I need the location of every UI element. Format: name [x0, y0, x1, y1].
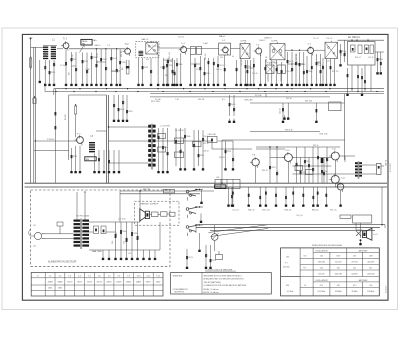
- more drops t3: [217, 56, 219, 82]
- more drops t4: [236, 60, 238, 82]
- wire bus left drop1: [53, 89, 55, 95]
- wire Tr10 base: [270, 157, 284, 159]
- wire Tr11-12 link: [334, 160, 336, 175]
- small box B1: [191, 47, 196, 55]
- svg-text:CA6.L2: CA6.L2: [141, 38, 149, 41]
- resistor R23 in box: [358, 45, 362, 54]
- svg-text:R1 220: R1 220: [45, 51, 47, 57]
- svg-text:2SC73: 2SC73: [77, 281, 82, 283]
- svg-text:R61.5A: R61.5A: [198, 98, 205, 101]
- svg-text:2N36: 2N36: [58, 288, 62, 290]
- svg-text:40: 40: [232, 56, 234, 58]
- ground g-265: [264, 82, 266, 84]
- resistor R1 drop: [44, 60, 46, 82]
- IF can T3 (C4 FM): [240, 44, 250, 59]
- svg-text:EN AM , 25 mA env.: EN AM , 25 mA env.: [204, 288, 220, 291]
- svg-text:510 kHz: 510 kHz: [335, 262, 342, 264]
- bus main upper: [25, 182, 388, 184]
- svg-text:1450 kHz: 1450 kHz: [318, 262, 326, 264]
- svg-text:C32 50: C32 50: [341, 50, 343, 56]
- wire box down b: [357, 65, 359, 92]
- wire ps mid: [89, 231, 94, 233]
- resistor R13 drop: [213, 58, 215, 82]
- mid cluster extra: [225, 141, 227, 166]
- wire block inner: [75, 114, 77, 137]
- ground g-229b: [228, 202, 230, 204]
- node j1: [96, 48, 97, 49]
- extra drop e1: [166, 60, 168, 82]
- capacitor C31 drop: [210, 245, 212, 265]
- svg-text:R33 4,7: R33 4,7: [355, 57, 361, 59]
- svg-text:C10: C10: [292, 68, 294, 71]
- IF can T2: [219, 43, 231, 55]
- svg-text:2SA49: 2SA49: [57, 280, 62, 283]
- cluster c1 v1: [158, 128, 160, 169]
- bus line B+ mid: [45, 91, 384, 93]
- svg-text:R60.10: R60.10: [262, 170, 268, 172]
- svg-text:R06. 5.6k: R06. 5.6k: [320, 134, 328, 136]
- svg-text:1667: 1667: [336, 256, 340, 258]
- vert audio f: [296, 147, 298, 183]
- sub box TR.AM a: [266, 65, 274, 74]
- small box mid4: [175, 152, 184, 158]
- bias resistor drop x265: [265, 187, 267, 202]
- wire mid h3: [109, 162, 149, 164]
- svg-text:108: 108: [369, 285, 372, 287]
- svg-text:C.40: C.40: [175, 99, 179, 101]
- vert audio g: [300, 158, 302, 184]
- bus line AGC: [150, 93, 384, 95]
- bias resistor drop x313: [312, 187, 314, 202]
- transistor Tr5: [256, 48, 262, 54]
- feedback line 3: [210, 229, 375, 231]
- cluster c2 v1: [175, 128, 177, 166]
- coil L1 winding b: [51, 47, 56, 48]
- svg-text:455: 455: [165, 75, 168, 77]
- vert v232: [229, 95, 231, 116]
- ground g-250: [250, 82, 252, 84]
- svg-text:R56k: R56k: [122, 231, 126, 233]
- transistor Tr1: [63, 43, 69, 49]
- ebenisterie dashed box: [135, 201, 180, 225]
- svg-text:FM: FM: [86, 159, 89, 161]
- ground jack2: [200, 219, 202, 221]
- svg-text:C10: C10: [234, 108, 236, 111]
- ground ps row: [102, 256, 104, 258]
- wire right spk drop: [381, 187, 383, 225]
- part box a: [340, 215, 351, 218]
- resistor R6 drop: [119, 49, 121, 82]
- svg-text:R15 2,2k: R15 2,2k: [169, 52, 171, 59]
- svg-text:RES. AR: RES. AR: [245, 98, 253, 101]
- svg-text:TGI FG1.N360: TGI FG1.N360: [76, 216, 90, 218]
- svg-text:160: 160: [320, 256, 323, 258]
- wire output right: [362, 164, 376, 166]
- capacitor C6 drop: [100, 49, 102, 82]
- svg-text:C47n: C47n: [233, 157, 235, 161]
- vert v266: [265, 94, 267, 97]
- svg-text:455: 455: [220, 57, 223, 59]
- transistor table grid: [31, 273, 163, 297]
- resistor R25 edge: [377, 52, 379, 70]
- jack contacts group1: [186, 190, 189, 193]
- extra drop e2: [295, 54, 297, 82]
- extra drop e3: [306, 56, 308, 82]
- svg-text:GA.L1: GA.L1: [94, 44, 101, 47]
- wire ps up: [159, 222, 161, 250]
- svg-text:C2n: C2n: [203, 138, 205, 141]
- wire audio h2: [292, 165, 331, 167]
- svg-text:2SC76: 2SC76: [87, 281, 92, 283]
- svg-text:C100: C100: [296, 61, 298, 65]
- resistor R21 drop: [316, 54, 318, 82]
- crossover X: [356, 231, 361, 236]
- node speaker gnd: [360, 239, 362, 241]
- block box top: [69, 94, 107, 96]
- ground g-312: [311, 82, 313, 84]
- capacitor C26 drop: [71, 148, 73, 169]
- capacitor C7 drop: [110, 49, 112, 82]
- ground under osc: [138, 82, 140, 84]
- wire antenna to L1: [31, 47, 43, 49]
- wire mains b: [46, 237, 74, 239]
- wire AGC right: [250, 102, 345, 104]
- wire label box pointer: [80, 45, 85, 53]
- svg-text:C3 .L2: C3 .L2: [326, 38, 333, 40]
- resistor R11 drop: [204, 58, 206, 82]
- wire audio h3: [292, 173, 355, 175]
- component dark audio: [321, 158, 324, 163]
- transistor Tr12: [331, 175, 339, 183]
- resistor R28 drop: [122, 95, 124, 118]
- transistor Tr9: [252, 159, 259, 166]
- svg-text:TENSIONS: TENSIONS: [173, 276, 183, 278]
- svg-text:R56k: R56k: [308, 71, 312, 73]
- ground g-377: [377, 70, 379, 72]
- svg-text:C47n: C47n: [54, 62, 56, 66]
- capacitor C9 loop: [125, 60, 127, 74]
- svg-text:C10: C10: [237, 68, 239, 71]
- svg-text:Z = 8: Z = 8: [373, 234, 377, 236]
- switch box on bus: [215, 179, 240, 188]
- svg-text:C26 20n: C26 20n: [286, 71, 292, 73]
- jack contacts group3: [186, 226, 189, 229]
- transformer L6 windings: [148, 125, 151, 128]
- jack TEL: [33, 98, 36, 104]
- svg-text:R4,7k: R4,7k: [289, 61, 294, 63]
- svg-text:C23.10: C23.10: [279, 108, 281, 114]
- svg-text:C14 30: C14 30: [160, 67, 166, 69]
- cluster c1 v2: [162, 128, 164, 169]
- ground g-240: [240, 82, 242, 84]
- ground g-276: [276, 82, 278, 84]
- svg-text:R21 56k: R21 56k: [241, 60, 243, 66]
- vert v234: [233, 95, 235, 116]
- capacitor C49: [115, 222, 117, 250]
- sub drop a: [267, 74, 269, 82]
- svg-text:R30 12k: R30 12k: [332, 71, 338, 73]
- svg-text:CH6.L2: CH6.L2: [259, 40, 265, 42]
- wire mid h1: [109, 126, 150, 128]
- wire box down c: [364, 65, 366, 92]
- resistor R5 drop: [86, 53, 88, 82]
- ground g-208: [207, 82, 209, 84]
- detector box: [348, 42, 376, 66]
- svg-text:R15k: R15k: [84, 61, 88, 63]
- wire tr12 down: [334, 183, 336, 187]
- wire link l6: [288, 63, 304, 65]
- svg-text:C.AM: C.AM: [203, 42, 208, 45]
- cluster c2 v2: [180, 128, 182, 166]
- svg-text:R62.1k: R62.1k: [313, 145, 319, 147]
- resistor R24 in box: [370, 45, 373, 54]
- black label box mid: [85, 157, 96, 161]
- node antenna top: [30, 38, 31, 39]
- svg-text:Ecout.: Ecout.: [386, 162, 389, 168]
- svg-text:R21.1k: R21.1k: [286, 98, 292, 100]
- IF can T4 (C5 FM): [270, 44, 285, 60]
- vert audio c: [304, 147, 306, 183]
- ground g-247: [246, 82, 248, 84]
- svg-text:C35 30: C35 30: [368, 57, 374, 59]
- wire link l8: [72, 65, 77, 67]
- transformer TA windings: [74, 220, 81, 222]
- svg-text:R4,7k: R4,7k: [120, 109, 125, 111]
- bias resistor drop x276: [275, 187, 277, 202]
- svg-text:2SB75: 2SB75: [106, 281, 111, 283]
- svg-text:108: 108: [337, 285, 340, 287]
- svg-text:2SA49: 2SA49: [48, 280, 53, 283]
- resistor R8 drop: [163, 58, 165, 82]
- svg-text:C47n: C47n: [277, 171, 279, 175]
- wire antenna lead: [30, 38, 32, 183]
- svg-text:R330: R330: [133, 233, 137, 235]
- svg-text:C4.FM: C4.FM: [240, 41, 247, 43]
- small box audio2: [306, 170, 314, 175]
- bias resistor drop x260: [259, 187, 261, 202]
- vert audio a: [269, 147, 271, 183]
- svg-text:C5.FM: C5.FM: [271, 41, 278, 43]
- wire output right2: [362, 173, 376, 175]
- vert audio e: [321, 158, 323, 184]
- transistor Tr11: [331, 152, 339, 160]
- transistor Tr10: [284, 154, 292, 162]
- svg-text:R1k: R1k: [302, 172, 305, 174]
- capacitor C21 drop: [320, 54, 322, 82]
- more drops t6: [347, 68, 349, 92]
- ground g-99: [98, 169, 100, 171]
- capacitor C5 drop: [91, 53, 93, 82]
- svg-text:CONSOMMATION: CONSOMMATION: [173, 288, 189, 291]
- ground g-75: [75, 169, 77, 171]
- svg-text:C2n: C2n: [106, 67, 108, 70]
- svg-text:C3 10n: C3 10n: [60, 65, 66, 67]
- capacitor C2 drop: [53, 60, 55, 82]
- svg-text:R220: R220: [212, 260, 216, 262]
- svg-text:C11 5p: C11 5p: [112, 71, 117, 73]
- capacitor C50: [120, 222, 122, 250]
- cluster c2 v3: [184, 128, 186, 166]
- svg-text:R44_30: R44_30: [285, 210, 292, 212]
- bias resistor drop x326: [325, 187, 327, 202]
- svg-text:87,5: 87,5: [353, 285, 356, 287]
- svg-text:R40_1k: R40_1k: [248, 210, 255, 212]
- svg-text:R15k: R15k: [178, 64, 182, 66]
- ground g-200: [199, 82, 201, 84]
- wire row1 e: [314, 49, 325, 51]
- svg-text:2N36: 2N36: [48, 288, 52, 290]
- svg-text:EN FM , 22 mA env.: EN FM , 22 mA env.: [204, 291, 220, 294]
- svg-text:2SC73: 2SC73: [67, 281, 72, 283]
- transistor Tr3: [181, 47, 187, 53]
- svg-text:C100: C100: [345, 52, 347, 56]
- svg-text:220: 220: [33, 246, 36, 248]
- svg-text:C58.25: C58.25: [203, 151, 209, 153]
- svg-text:R26 3.3k: R26 3.3k: [285, 129, 293, 131]
- svg-text:C4,7: C4,7: [127, 237, 129, 241]
- capacitor C8 drop: [116, 49, 118, 82]
- svg-text:BAT. FM: BAT. FM: [143, 188, 151, 191]
- svg-text:C4,7: C4,7: [381, 61, 383, 65]
- wire hp link: [150, 214, 152, 216]
- svg-text:1667: 1667: [369, 256, 373, 258]
- cluster mid verticals: [113, 95, 115, 118]
- wire audio feed1: [256, 148, 285, 150]
- mid cluster extra2: [232, 141, 234, 166]
- wire transfo up a: [76, 192, 78, 220]
- svg-text:87,5: 87,5: [320, 285, 323, 287]
- svg-text:647: 647: [369, 268, 372, 270]
- ground g-114b: [113, 169, 115, 171]
- wire diagonal b: [211, 228, 269, 236]
- wire mains a: [46, 233, 74, 235]
- wire link l4: [191, 63, 201, 65]
- svg-text:R220: R220: [51, 72, 55, 74]
- svg-text:R15k: R15k: [168, 65, 172, 67]
- oscillator dashed box: [136, 42, 159, 58]
- svg-text:R6: R6: [122, 68, 124, 70]
- wire fb left drop: [195, 225, 197, 233]
- svg-text:4.111.010: 4.111.010: [390, 163, 392, 172]
- feedback line 2: [196, 227, 380, 229]
- wire pot down: [214, 240, 216, 251]
- ground g-224: [224, 82, 226, 84]
- connector jack a: [152, 212, 159, 217]
- wire v55: [54, 89, 56, 184]
- svg-text:C100: C100: [181, 149, 183, 153]
- coil L5 dark: [89, 142, 95, 143]
- svg-text:C49: C49: [112, 241, 114, 244]
- svg-text:C20 5n: C20 5n: [216, 69, 222, 71]
- wire L1 top link: [43, 45, 57, 47]
- svg-text:C49 2000: C49 2000: [118, 219, 125, 221]
- diode cluster box: [208, 137, 218, 143]
- diode D2: [94, 226, 99, 234]
- resistor R9 drop: [172, 58, 174, 82]
- feedback line 1: [196, 224, 385, 226]
- svg-text:R330: R330: [144, 67, 148, 69]
- resistor R31 drop: [205, 245, 207, 265]
- wire pot up: [214, 225, 216, 234]
- svg-text:90 MHz: 90 MHz: [352, 291, 358, 293]
- svg-text:C22: C22: [76, 68, 78, 71]
- ground g-104: [103, 169, 105, 171]
- svg-text:R330: R330: [200, 155, 204, 157]
- svg-text:500 kHz: 500 kHz: [351, 274, 358, 276]
- svg-text:C7 40: C7 40: [85, 69, 90, 71]
- svg-text:C10: C10: [123, 101, 125, 104]
- small cluster pots: [216, 255, 223, 260]
- HP speaker: [140, 209, 146, 221]
- svg-text:Ea. REGLA: Ea. REGLA: [348, 36, 360, 39]
- cluster c1 v3: [167, 128, 169, 169]
- wire link l7: [317, 61, 321, 63]
- node j2: [105, 48, 106, 49]
- svg-text:2410kHz: 2410kHz: [367, 262, 374, 264]
- wire y141 left: [35, 140, 76, 142]
- svg-text:P2 /EM: P2 /EM: [384, 160, 386, 166]
- wire bat a: [120, 190, 214, 192]
- cluster c3 v3: [202, 130, 204, 166]
- svg-text:R330: R330: [73, 156, 77, 158]
- svg-text:6,7 MHz: 6,7 MHz: [287, 291, 294, 293]
- wire to output tr: [339, 155, 355, 157]
- svg-text:510 kHz: 510 kHz: [318, 274, 325, 276]
- bus junction dots2: [55, 91, 56, 92]
- svg-text:R44_DL: R44_DL: [312, 210, 319, 212]
- svg-text:R220: R220: [271, 167, 275, 169]
- svg-text:R21.13k: R21.13k: [305, 100, 312, 102]
- connector pin c: [170, 212, 176, 216]
- svg-text:GO: GO: [304, 256, 307, 258]
- vert audio d: [312, 147, 314, 183]
- svg-text:C23 40: C23 40: [252, 73, 258, 75]
- bus line B+ upper: [54, 88, 384, 90]
- ground g-260: [259, 82, 261, 84]
- IF can T5 (C3 L2): [325, 42, 338, 58]
- svg-text:MAB. N360: MAB. N360: [92, 250, 102, 253]
- wire to speaker: [355, 223, 357, 230]
- svg-text:P.TA.24S: P.TA.24S: [47, 138, 55, 141]
- bias resistor drop x248: [248, 187, 250, 202]
- resistor R3 drop: [75, 52, 77, 82]
- vert audio k: [323, 158, 325, 184]
- wire box out right: [375, 51, 384, 53]
- ground g-334: [334, 82, 336, 84]
- svg-text:MA.L2: MA.L2: [219, 35, 226, 38]
- label box (part no): [81, 39, 92, 45]
- ground stub extra: [39, 79, 41, 81]
- svg-text:R21. R61: R21. R61: [151, 101, 161, 103]
- svg-text:R51_1k: R51_1k: [330, 210, 337, 212]
- svg-text:R24 1M: R24 1M: [266, 55, 268, 62]
- svg-text:C54_50: C54_50: [296, 215, 303, 217]
- wire mid to Tr9: [211, 141, 213, 149]
- svg-text:OA90: OA90: [156, 280, 160, 283]
- svg-text:R12 10k: R12 10k: [121, 51, 123, 57]
- capacitor C28 drop: [126, 95, 128, 118]
- svg-text:C4,7: C4,7: [175, 71, 177, 75]
- ground g-119b: [118, 169, 120, 171]
- bus line aux: [185, 96, 330, 98]
- svg-text:EBENIST. SUPERP.: EBENIST. SUPERP.: [141, 204, 159, 206]
- small box mid2: [158, 147, 166, 152]
- small box mid3: [175, 138, 184, 144]
- conditions box: [171, 273, 272, 295]
- svg-text:C5 12: C5 12: [178, 37, 185, 39]
- transistor Tr7: [308, 47, 314, 53]
- svg-text:C10: C10: [117, 69, 119, 72]
